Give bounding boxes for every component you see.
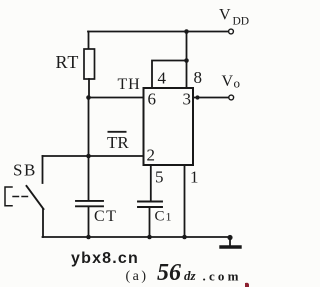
svg-text:(a): (a) <box>126 269 149 284</box>
node gnd stub <box>227 235 232 240</box>
svg-text:V: V <box>222 73 234 90</box>
svg-text:DD: DD <box>233 16 250 28</box>
node VDD junction <box>184 29 189 34</box>
wire CT bottom <box>88 207 90 238</box>
svg-text:5: 5 <box>155 168 164 187</box>
terminal VDD <box>229 29 234 34</box>
wire C1 bottom <box>149 207 151 237</box>
node pin8 bracket junction <box>184 58 189 63</box>
wire RT top drop <box>88 32 90 50</box>
switch SB actuator dashed link <box>13 196 29 198</box>
resistor RT <box>84 49 95 79</box>
wire TR to pin2 <box>43 155 144 157</box>
wire top rail VDD <box>88 31 229 33</box>
svg-text:dz: dz <box>184 268 197 283</box>
node pin3 <box>195 95 199 99</box>
svg-text:56: 56 <box>157 260 181 286</box>
watermark 56dz.com <box>157 260 249 287</box>
svg-text:TR: TR <box>107 133 129 152</box>
wire pin8 stub <box>186 61 188 89</box>
svg-text:V: V <box>219 7 231 24</box>
svg-text:8: 8 <box>194 68 203 87</box>
svg-text:RT: RT <box>56 52 80 72</box>
wire pin5 stub <box>150 165 152 201</box>
terminal Vo <box>229 95 234 100</box>
wire RT bottom <box>88 79 90 98</box>
svg-text:SB: SB <box>13 161 37 180</box>
wire TH to TR vertical <box>88 98 90 157</box>
node pin1-gnd <box>182 235 187 240</box>
wire TH to pin6 <box>89 97 144 99</box>
svg-text:2: 2 <box>147 146 156 165</box>
wire VDD to pin8 drop <box>186 32 188 61</box>
svg-text:.com: .com <box>203 269 242 284</box>
op-amp U1 555 timer box <box>144 88 194 165</box>
svg-text:1: 1 <box>166 210 172 224</box>
svg-text:6: 6 <box>148 90 157 109</box>
svg-text:CT: CT <box>94 208 117 225</box>
wire pin3 output <box>193 97 229 99</box>
svg-text:4: 4 <box>158 69 167 88</box>
node TH junction <box>86 95 91 100</box>
wire CT top <box>88 156 90 200</box>
switch SB actuator bracket <box>5 187 12 206</box>
switch SB blade <box>27 186 44 209</box>
svg-text:o: o <box>234 76 241 91</box>
svg-text:1: 1 <box>190 168 199 187</box>
svg-text:C: C <box>155 209 165 225</box>
svg-text:ybx8.cn: ybx8.cn <box>71 250 139 267</box>
wire SB lower contact <box>42 209 44 237</box>
capacitor C1 <box>138 201 162 203</box>
node CT-gnd <box>86 235 91 240</box>
svg-text:3: 3 <box>183 90 192 109</box>
capacitor CT <box>76 200 103 202</box>
wire pin4-pin8 bracket <box>152 61 187 89</box>
node C1-gnd <box>147 235 152 240</box>
svg-text:TH: TH <box>118 76 141 93</box>
wire ground rail <box>43 236 231 238</box>
node TR junction <box>86 154 91 159</box>
wire pin1 stub <box>184 165 186 237</box>
wire SB upper contact <box>42 156 44 183</box>
ground <box>229 238 231 246</box>
